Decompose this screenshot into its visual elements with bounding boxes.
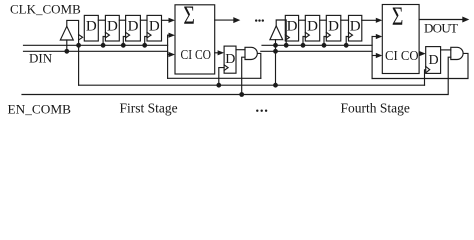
junction B2 column on W1' — [273, 43, 278, 48]
junction riser FF4 on W1 — [142, 43, 147, 48]
junction riser FF3 on W1 — [121, 43, 126, 48]
arrow into U1 input B — [169, 33, 176, 38]
svg-text:Σ: Σ — [392, 2, 404, 31]
wire FF2 Q to FF3 D — [119, 19, 125, 21]
svg-text:First Stage: First Stage — [120, 101, 178, 116]
wire U2 sum output DOUT — [419, 19, 463, 21]
flip-flop FF4 stage1 — [147, 15, 162, 41]
arrow into carry FF FC1 — [218, 50, 225, 55]
AND gate G2 — [451, 47, 463, 59]
junction clock column 2 on W1' — [284, 43, 289, 48]
svg-text:DOUT: DOUT — [424, 20, 458, 35]
wire stub into U1 CI — [168, 54, 169, 56]
wire clock riser FF4 stage4 — [346, 37, 348, 46]
wire EN riser to G1 — [242, 57, 245, 94]
wire FF3 Q to FF4 D — [140, 19, 147, 21]
wire G1 output to carry loop — [258, 53, 261, 78]
clock wedge FC1 — [224, 65, 228, 71]
wire rail EN_COMB — [22, 57, 451, 94]
wire FC1 Q to AND G1 — [236, 49, 245, 51]
clock wedge FF3 stage1 — [126, 32, 130, 37]
wire stub into U2 CI — [372, 55, 376, 57]
vertical feed column at U2 left — [371, 37, 373, 79]
wire clock riser FF3 stage4 — [324, 37, 326, 46]
svg-text:D: D — [428, 53, 438, 68]
arrow into carry FF FC2 — [419, 51, 426, 56]
clock wedge FF1 stage1 — [79, 35, 83, 40]
flip-flop FF3 stage1 — [126, 15, 141, 41]
junction riser FF2 stage4 — [301, 43, 306, 48]
AND gate G1 — [245, 47, 257, 59]
wire G2 output wrap to carry loop W3a stage4 — [372, 53, 468, 78]
junction riser FF4 stage4 — [344, 43, 349, 48]
svg-text:EN_COMB: EN_COMB — [8, 102, 72, 117]
arrow into U2 CI — [376, 53, 383, 58]
junction clock column on W1 — [76, 43, 81, 48]
junction riser FF2 on W1 — [101, 43, 106, 48]
wire FF3 Q to FF4 D stage4 — [341, 19, 349, 21]
wire FF1 Q to FF2 D — [98, 19, 105, 21]
arrow into U1 input A — [169, 18, 176, 23]
wire buffer B1 output elbow — [67, 20, 79, 85]
clock wedge FF1 stage4 — [285, 35, 289, 40]
wire rail W2' stage4 — [261, 50, 372, 52]
svg-text:D: D — [128, 19, 139, 35]
clock buffer B1 — [60, 26, 73, 40]
wire clock riser FC2 from W3b end — [425, 70, 426, 85]
flip-flop FF2 stage1 — [105, 15, 119, 41]
wire clock riser FF2 — [103, 37, 105, 46]
svg-text:CLK_COMB: CLK_COMB — [10, 2, 81, 17]
wire clock riser FF4 — [145, 37, 147, 46]
clock wedge FF2 stage1 — [105, 32, 109, 37]
wire clock riser FC1 — [219, 68, 224, 86]
wire FF4 Q to adder U2 input A — [362, 19, 377, 21]
wire rail W2 (CLK_COMB rail) — [24, 50, 168, 52]
wire U2 CO out — [418, 53, 421, 55]
svg-text:D: D — [328, 19, 339, 35]
wire FF4 Q to adder U1 input A — [162, 19, 170, 21]
svg-text:CI CO: CI CO — [181, 47, 212, 62]
svg-text:Fourth Stage: Fourth Stage — [341, 101, 410, 116]
svg-text:D: D — [350, 19, 361, 35]
carry flip-flop FC2 — [426, 47, 441, 74]
flip-flop FF3 stage4 — [326, 15, 341, 41]
wire clock riser FF3 — [123, 37, 125, 46]
wire FF1 Q to FF2 D stage4 — [299, 19, 306, 21]
wire clock backbone W3b — [79, 84, 425, 86]
clock wedge FC2 — [426, 66, 430, 72]
arrowhead DOUT — [462, 17, 469, 23]
wire carry loop W3a stage1 — [168, 77, 261, 79]
flip-flop FF2 stage4 — [305, 15, 319, 41]
clock wedge FF2 stage4 — [305, 32, 309, 37]
junction EN riser on EN rail — [239, 92, 244, 97]
ellipsis bottom — [256, 110, 258, 112]
ellipsis top — [255, 19, 257, 21]
wire clock riser FF2 stage4 — [303, 37, 305, 46]
junction B1 input on W2 — [64, 49, 69, 54]
adder U1 — [175, 5, 215, 74]
adder U2 — [382, 5, 419, 74]
wire buffer B1 input riser — [66, 40, 68, 51]
svg-text:D: D — [86, 19, 97, 35]
flip-flop FF1 stage1 — [84, 15, 98, 41]
svg-text:D: D — [225, 52, 235, 67]
svg-text:D: D — [149, 19, 160, 35]
junction B2 column on W3b — [273, 83, 278, 88]
wire stub into U2 input B — [372, 36, 376, 38]
wire FC2 Q to AND G2 — [441, 49, 451, 51]
wire B2 input column — [275, 40, 277, 85]
wire rail W1 (DIN rail) — [24, 44, 168, 46]
carry flip-flop FC1 — [224, 46, 236, 73]
flip-flop FF1 stage4 — [285, 15, 298, 41]
clock buffer B2 — [270, 26, 283, 40]
clock wedge FF3 stage4 — [326, 32, 330, 37]
wire U1 sum output — [215, 19, 234, 21]
junction riser FF3 stage4 — [322, 43, 327, 48]
junction B2 column on W2' — [273, 49, 278, 54]
wire rail W1' stage4 — [262, 44, 372, 46]
arrow into U1 CI — [169, 52, 176, 57]
arrow into U2 input B — [376, 34, 383, 39]
clock wedge FF4 stage1 — [147, 32, 151, 37]
arrowhead U1 sum output — [233, 17, 240, 23]
svg-text:D: D — [107, 19, 118, 35]
vertical feed column at U1 left — [167, 35, 169, 78]
svg-text:D: D — [287, 19, 298, 35]
wire FF2 Q to FF3 D stage4 — [320, 19, 327, 21]
svg-text:Σ: Σ — [183, 1, 195, 30]
clock wedge FF4 stage4 — [349, 32, 353, 37]
svg-text:DIN: DIN — [29, 51, 53, 66]
wire buffer B2 output elbow — [276, 20, 286, 45]
svg-text:D: D — [307, 19, 318, 35]
flip-flop FF4 stage4 — [349, 15, 362, 41]
wire U1 CO out — [215, 52, 218, 54]
junction riser FC1 on W3b — [216, 83, 221, 88]
svg-text:CI CO: CI CO — [385, 48, 419, 63]
wire stub into U1 input B — [168, 34, 169, 36]
arrow into U2 input A — [376, 18, 383, 23]
